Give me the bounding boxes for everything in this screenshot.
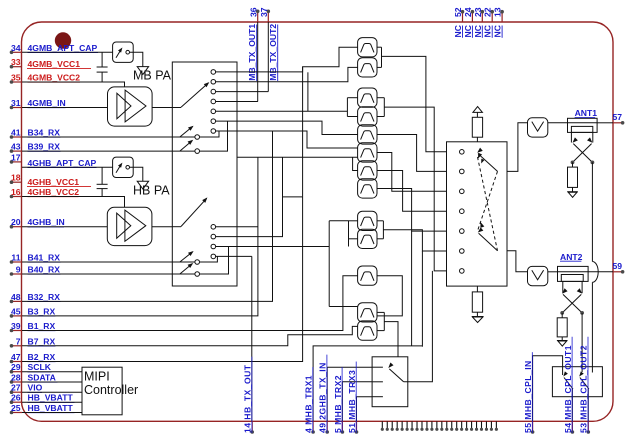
wire contact4 to MB_TX_OUT1	[216, 100, 258, 102]
pin 45 B3_RX stub	[12, 315, 23, 317]
ant switch dashed throw B	[478, 171, 498, 229]
filter1/2 output bracket	[377, 46, 382, 48]
filter F11	[358, 266, 377, 285]
wire B34_RX	[22, 136, 195, 138]
svg-text:ANT1: ANT1	[575, 108, 598, 118]
svg-text:B3_RX: B3_RX	[28, 306, 56, 316]
svg-text:HB_VBATT: HB_VBATT	[28, 393, 74, 403]
wire MB_TX_OUT1	[257, 22, 259, 101]
underline 4GHB_VCC1	[27, 186, 91, 188]
wire to ant switch input1	[382, 56, 447, 151]
coupler1 coupled lines	[570, 132, 572, 142]
pin 39 B1_RX stub	[12, 330, 23, 332]
wire filter5 out to input2	[377, 135, 447, 172]
HB APT switch box	[113, 157, 134, 177]
wire HB contact4 to HB_TX_OUT	[216, 255, 252, 257]
svg-text:B39_RX: B39_RX	[28, 142, 61, 152]
svg-text:B41_RX: B41_RX	[28, 253, 61, 263]
MB APT switch right lead	[130, 52, 143, 66]
antenna switch box U-ASW	[447, 142, 508, 286]
pin 34 4GMB_APT_CAP stub	[12, 51, 23, 53]
svg-text:4GMB_VCC2: 4GMB_VCC2	[28, 73, 81, 83]
svg-text:35: 35	[11, 73, 21, 83]
svg-text:ANT2: ANT2	[560, 252, 583, 262]
wire cpl2 fwd port drop	[581, 313, 583, 372]
open arrow up	[473, 107, 483, 113]
wire ant switch to LPF2	[507, 251, 528, 272]
svg-text:4GMB_APT_CAP: 4GMB_APT_CAP	[28, 43, 98, 53]
svg-text:HB_VBATT: HB_VBATT	[28, 403, 74, 413]
wire 4MHB_TRX1	[313, 346, 422, 421]
svg-text:39: 39	[11, 321, 21, 331]
wire filter8 out to input5	[377, 189, 447, 232]
svg-text:45: 45	[11, 306, 21, 316]
pin 55 MHB_CPL_IN	[532, 421, 534, 432]
wire filter6 out to input3	[377, 153, 447, 192]
pin 41 B34_RX stub	[12, 136, 23, 138]
filter9/10 output bracket	[377, 220, 383, 222]
B41 riser to HB contact4 line	[200, 256, 218, 262]
pin 53 MHB_CPL_OUT2	[587, 421, 589, 432]
svg-text:NC: NC	[493, 25, 503, 37]
pin 59	[613, 271, 623, 273]
svg-text:37: 37	[259, 7, 269, 17]
HB PA output wire	[152, 226, 172, 228]
pin 11 B41_RX stub	[12, 261, 23, 263]
svg-text:7: 7	[16, 336, 21, 346]
MB switch contact 6	[211, 119, 216, 124]
svg-text:B2_RX: B2_RX	[28, 352, 56, 362]
wire 2G common to ant switch input7 riser	[404, 271, 433, 382]
svg-text:33: 33	[11, 57, 21, 67]
ant switch contact 7	[460, 269, 465, 274]
resistor R-top	[472, 117, 482, 137]
CPL switch 2	[580, 378, 589, 390]
wire B32_RX riser	[22, 131, 273, 301]
svg-text:54 MHB_CPL_OUT1: 54 MHB_CPL_OUT1	[563, 345, 573, 433]
wire contact6 to filter5	[216, 121, 358, 134]
resistor R-cpl1	[572, 162, 574, 167]
svg-text:47: 47	[11, 352, 21, 362]
svg-text:VIO: VIO	[28, 383, 43, 393]
pin 20 4GHB_IN stub	[12, 226, 23, 228]
pin 7 B7_RX stub	[12, 345, 23, 347]
MB PA output wire	[152, 107, 172, 109]
svg-text:HB PA: HB PA	[133, 184, 170, 198]
MB switch contact 4	[211, 99, 216, 104]
wire SCLK	[22, 371, 82, 373]
B39 riser to contact6 line	[200, 121, 228, 151]
coupler CPL1	[568, 118, 598, 132]
svg-text:24: 24	[463, 7, 473, 17]
wire filter7 out to input4	[377, 171, 447, 212]
svg-text:Controller: Controller	[84, 383, 138, 397]
svg-text:36: 36	[248, 7, 258, 17]
wire MB_TX_OUT2	[267, 22, 269, 92]
wire MHB_TRX2	[342, 382, 372, 422]
filter9/10 input bracket	[348, 221, 350, 247]
open arrow down	[472, 316, 484, 318]
filter F1	[358, 38, 377, 57]
MB switch common arm	[181, 83, 208, 107]
wire HB_VBATT 26	[22, 401, 82, 403]
ant switch contact 6	[460, 249, 465, 254]
ant switch contact 1	[460, 150, 465, 155]
HB switch contact 3	[211, 244, 216, 249]
B41 switch arm	[180, 252, 193, 262]
wire filters9/10 out to input6	[383, 230, 446, 251]
wire 4GHB_APT_CAP	[22, 166, 113, 168]
wire HB_VBATT 25	[22, 412, 82, 414]
filter F10	[358, 229, 377, 248]
wire VIO	[22, 391, 82, 393]
wire cpl1 fwd port drop with hop	[591, 162, 593, 261]
wire 4GHB_VCC2 to HB PA supply	[22, 197, 125, 208]
HB switch contact 1	[211, 225, 216, 230]
underline 4GMB_VCC1	[27, 68, 91, 70]
svg-text:NC: NC	[453, 25, 463, 37]
ant switch contact 5	[460, 229, 465, 234]
2G TX switch box U-2G	[372, 357, 408, 407]
coupler2 coupled lines	[562, 281, 564, 293]
pin 23 NC	[481, 12, 483, 22]
svg-text:4GHB_VCC1: 4GHB_VCC1	[28, 177, 80, 187]
B40 riser to HB contact3 line	[200, 247, 229, 275]
ground cpl2	[557, 340, 568, 342]
svg-text:B1_RX: B1_RX	[28, 321, 56, 331]
pin 28 SDATA stub	[12, 381, 23, 383]
wire B1_RX to filter11	[22, 276, 358, 331]
wire B39_RX	[22, 150, 195, 152]
HB switch contact 4	[211, 254, 216, 259]
wire LPF2 to coupler2	[548, 271, 558, 273]
contact B41	[195, 260, 200, 265]
svg-text:23: 23	[473, 7, 483, 17]
MB APT switch arm	[116, 49, 121, 58]
wire HB_TX_OUT drop	[251, 256, 253, 421]
wire contact7 to filter6	[216, 131, 358, 148]
svg-text:B7_RX: B7_RX	[28, 336, 56, 346]
pin 31 4GMB_IN stub	[12, 107, 23, 109]
wire 4GMB_APT_CAP	[22, 51, 113, 53]
pin 27 VIO stub	[12, 391, 23, 393]
wire HB contact3 trunk	[216, 246, 330, 248]
pin 14 HB_TX_OUT	[251, 421, 253, 432]
svg-text:27: 27	[11, 383, 21, 393]
ant switch arm ANT2	[479, 233, 498, 250]
wire contact1 to filter1	[216, 47, 358, 72]
pin 37 MB_TX_OUT2	[267, 11, 269, 22]
capacitor HB APT	[101, 167, 103, 184]
pin 17 4GHB_APT_CAP stub	[12, 161, 23, 163]
B39 switch arm	[180, 141, 192, 152]
svg-text:18: 18	[11, 173, 21, 183]
wires CPL outs to pins	[571, 397, 573, 422]
svg-text:53 MHB_CPL_OUT2: 53 MHB_CPL_OUT2	[579, 345, 589, 433]
svg-text:4GMB_VCC1: 4GMB_VCC1	[28, 59, 81, 69]
svg-text:MB PA: MB PA	[133, 69, 172, 83]
svg-text:4GHB_IN: 4GHB_IN	[28, 217, 65, 227]
low pass filter LPF2	[528, 266, 548, 285]
pin 18 4GHB_VCC1 stub	[12, 181, 23, 183]
MB switch contact 1	[211, 70, 216, 75]
pin 51 MHB_TRX3	[356, 421, 358, 432]
wire B40_RX	[22, 273, 195, 275]
pin 36 MB_TX_OUT1	[257, 11, 259, 22]
MB switch contact 5	[211, 109, 216, 114]
capacitor MB APT	[101, 52, 103, 67]
svg-text:SDATA: SDATA	[28, 373, 56, 383]
svg-text:B32_RX: B32_RX	[28, 292, 61, 302]
wire coupler1 to pin 57	[597, 122, 613, 124]
svg-text:16: 16	[11, 187, 21, 197]
wire HB contact2 riser	[216, 157, 283, 236]
filter3/4 input bracket	[346, 98, 348, 117]
ant switch contact 2	[460, 169, 465, 174]
HB switch common arm	[181, 198, 207, 226]
wire riser f8 column down to TRX1 trunk	[411, 231, 413, 346]
pin 48 B32_RX stub	[12, 300, 23, 302]
contact B39	[195, 149, 200, 154]
wire 4GMB_VCC2 to MB PA supply	[22, 82, 125, 87]
svg-text:22: 22	[483, 7, 493, 17]
wire 4GMB_IN	[22, 107, 108, 109]
pin 35 4GMB_VCC2 stub	[12, 81, 23, 83]
svg-text:14 HB_TX_OUT: 14 HB_TX_OUT	[243, 364, 253, 433]
wire riser f9 bracket to f12 feed	[328, 221, 330, 307]
coupler CPL2	[558, 266, 589, 281]
wire short riser c1-c5	[307, 72, 309, 111]
svg-text:B34_RX: B34_RX	[28, 128, 61, 138]
svg-text:13: 13	[493, 7, 503, 17]
svg-text:49 2GHB_TX_IN: 49 2GHB_TX_IN	[318, 362, 328, 433]
filter3/4 output bracket	[377, 97, 384, 99]
svg-text:26: 26	[11, 393, 21, 403]
ant switch contact 3	[460, 189, 465, 194]
svg-text:55 MHB_CPL_IN: 55 MHB_CPL_IN	[523, 360, 533, 433]
svg-text:SCLK: SCLK	[28, 362, 52, 372]
filter F13	[358, 321, 377, 340]
low pass filter LPF1	[528, 118, 548, 137]
op-amp HB PA	[107, 207, 152, 245]
pin 29 SCLK stub	[12, 371, 23, 373]
svg-text:NC: NC	[483, 25, 493, 37]
pin 9 B40_RX stub	[12, 273, 23, 275]
wire B2_RX riser	[22, 197, 303, 362]
wire coupler2 to pin 59	[588, 271, 613, 273]
HB APT switch right lead	[130, 167, 143, 181]
wire link to B2 riser	[283, 196, 303, 198]
HB APT switch arm	[116, 164, 121, 173]
HB switch contact 2	[211, 234, 216, 239]
coupler switch box U-CPL	[552, 367, 602, 397]
MB switch contact 7	[211, 129, 216, 134]
filter F5	[358, 125, 377, 144]
wire filter11 output drop to filter12 out	[377, 276, 402, 316]
filter12 input feed	[329, 306, 357, 308]
pin 54 MHB_CPL_OUT1	[571, 421, 573, 432]
node cpl2 right	[580, 311, 584, 315]
MB APT switch contact	[126, 50, 130, 54]
filter F7	[358, 161, 377, 180]
svg-text:4GMB_IN: 4GMB_IN	[28, 98, 66, 108]
pin 57	[613, 122, 623, 124]
riser TRX1 to input6 column	[421, 251, 423, 347]
wire B3_RX riser	[22, 157, 258, 316]
op-amp MB PA	[108, 87, 153, 126]
svg-text:NC: NC	[473, 25, 483, 37]
ant switch arm ANT1	[478, 154, 498, 172]
svg-text:28: 28	[11, 373, 21, 383]
node cpl1 left	[571, 161, 575, 165]
contact B40	[195, 272, 200, 277]
band select switch box U-SW1	[172, 62, 237, 286]
filter F8	[358, 179, 377, 198]
wire B7_RX to filter13	[22, 326, 358, 345]
node cpl1 right	[591, 161, 595, 165]
wire HB trunk into filter6	[237, 156, 358, 158]
svg-text:4GHB_VCC2: 4GHB_VCC2	[28, 187, 80, 197]
jog to filter7	[353, 157, 358, 170]
pin 13 NC	[501, 12, 503, 22]
svg-text:48: 48	[11, 292, 21, 302]
svg-text:20: 20	[11, 217, 21, 227]
wire contact3 to MB_TX_OUT2	[216, 91, 269, 93]
svg-text:57: 57	[613, 112, 623, 122]
ant switch contact 4	[460, 209, 465, 214]
ground pin row	[381, 421, 383, 428]
pin 33 4GMB_VCC1 stub	[12, 66, 23, 68]
wire filters12/13 out to 2G switch	[384, 322, 398, 357]
pin 16 4GHB_VCC2 stub	[12, 196, 23, 198]
HB open triangle symbol	[137, 181, 148, 189]
svg-text:25: 25	[11, 403, 21, 413]
ant switch top port	[476, 137, 478, 142]
ant switch dashed throw A	[478, 157, 498, 251]
svg-text:17: 17	[11, 152, 21, 162]
wire filters3/4 out to input7	[384, 107, 446, 271]
coupler1 cross switch	[573, 144, 592, 163]
contact B34	[195, 135, 200, 140]
wire ant switch to LPF1	[507, 123, 528, 172]
resistor R-bot	[472, 292, 482, 312]
pin 24 NC	[471, 12, 473, 22]
svg-text:4GHB_APT_CAP: 4GHB_APT_CAP	[28, 158, 97, 168]
svg-text:59: 59	[613, 261, 623, 271]
svg-text:51 MHB_TRX3: 51 MHB_TRX3	[347, 370, 357, 433]
wire riser tie c1 jog to B2 net	[302, 67, 304, 197]
pin 22 NC	[491, 12, 493, 22]
filter F3	[358, 88, 377, 107]
pin 1 marker	[55, 32, 71, 48]
2G switch input stubs	[372, 366, 383, 368]
wire 2GHB_TX_IN	[327, 367, 372, 421]
node cpl2 left	[560, 311, 564, 315]
svg-text:52: 52	[453, 7, 463, 17]
MB open triangle symbol	[137, 67, 148, 75]
wire MHB_CPL_IN entry	[533, 356, 563, 422]
coupler2 cross switch	[562, 294, 581, 313]
wire MHB_TRX3	[357, 397, 373, 422]
pin 49 2GHB_TX_IN	[326, 421, 328, 432]
svg-text:4 MHB_TRX1: 4 MHB_TRX1	[304, 375, 314, 433]
filter F4	[358, 107, 377, 126]
resistor R-cpl2	[561, 313, 563, 318]
filter F12	[358, 303, 377, 322]
svg-text:5 MHB_TRX2: 5 MHB_TRX2	[333, 375, 343, 433]
wire contact2 to filter2	[216, 67, 358, 81]
MB APT switch box	[113, 42, 134, 62]
filter F2	[358, 58, 377, 77]
pin 4 MHB_TRX1	[312, 421, 314, 432]
svg-text:9: 9	[16, 265, 21, 275]
B34 switch arm	[180, 127, 193, 138]
svg-text:MIPI: MIPI	[84, 370, 110, 384]
svg-text:41: 41	[11, 128, 21, 138]
svg-text:11: 11	[11, 253, 20, 263]
B34 riser to contact7 line	[200, 131, 220, 137]
svg-text:34: 34	[11, 43, 21, 53]
wire LPF1 to coupler1	[548, 122, 568, 124]
wire B41_RX	[22, 261, 195, 263]
ant switch bottom port	[476, 286, 478, 292]
pin 25 HB_VBATT stub	[12, 412, 23, 414]
svg-text:31: 31	[11, 98, 21, 108]
pin 26 HB_VBATT stub	[12, 401, 23, 403]
wire SDATA	[22, 381, 82, 383]
2G switch arm	[389, 369, 403, 382]
filter F6	[358, 143, 377, 162]
MB switch contact 2	[211, 79, 216, 84]
svg-text:29: 29	[11, 362, 21, 372]
MB switch contact 3	[211, 89, 216, 94]
wire HB contact1 line	[216, 226, 258, 228]
wire contact5 trunk	[216, 110, 348, 112]
MIPI controller box U-MIPI	[82, 367, 122, 415]
pin 43 B39_RX stub	[12, 150, 23, 152]
svg-text:B40_RX: B40_RX	[28, 265, 61, 275]
wire 4GHB_IN	[22, 226, 107, 228]
pin 5 MHB_TRX2	[341, 421, 343, 432]
svg-text:43: 43	[11, 142, 21, 152]
filter F9	[358, 211, 377, 230]
HB APT switch contact	[126, 166, 130, 170]
B40 switch arm	[180, 264, 192, 274]
pin 52 NC	[462, 12, 464, 22]
svg-text:NC: NC	[463, 25, 473, 37]
filter12/13 output bracket	[377, 311, 384, 313]
CPL switch 1	[564, 378, 573, 390]
pin 47 B2_RX stub	[12, 361, 23, 363]
ground cpl1	[567, 191, 578, 193]
